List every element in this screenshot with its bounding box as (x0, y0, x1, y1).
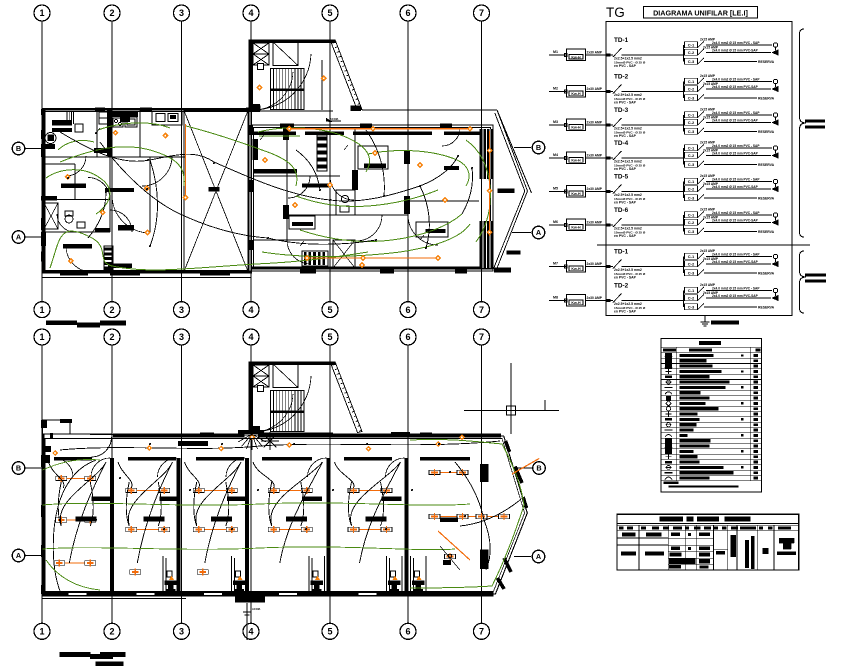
legend row line 6 (661, 384, 761, 386)
breaker C-3 row (685, 161, 698, 167)
tb small square (763, 548, 769, 554)
column bar upper (480, 464, 488, 482)
wall pier (360, 592, 384, 596)
legend row line 20 (661, 458, 761, 460)
outlet diamond (487, 148, 493, 154)
outlet diamond (417, 162, 423, 168)
elevator door b (258, 386, 264, 392)
meter Kw-H 6 (567, 219, 586, 231)
ground symbol under panel (704, 316, 706, 323)
wire fan at stair exit (252, 434, 266, 442)
outlet symbol end C-2 (772, 220, 778, 225)
legend row line 9 (661, 400, 761, 402)
svg-text:C-1: C-1 (688, 213, 695, 218)
svg-text:5: 5 (327, 305, 332, 315)
C-2 branch line (706, 263, 771, 265)
tb hdr blob (722, 526, 727, 529)
room 3 drop wires (194, 482, 197, 526)
svg-text:ACOM.: ACOM. (330, 117, 339, 121)
legend row 1 symbol+text (680, 354, 714, 357)
tick bar at point (498, 189, 515, 194)
wire junction dots (95, 132, 97, 134)
green branch top (259, 135, 300, 137)
svg-text:C-1: C-1 (688, 113, 695, 118)
svg-text:en PVC - SAP: en PVC - SAP (614, 234, 637, 238)
tb tall blob b (745, 540, 749, 568)
switch ticks (96, 128, 100, 133)
range (113, 118, 123, 127)
room 5 desk bar a (382, 497, 402, 502)
svg-text:C-1: C-1 (688, 43, 695, 48)
room 4 desk bar a (302, 497, 322, 502)
svg-text:1: 1 (39, 627, 44, 637)
wall pier (150, 592, 174, 596)
fluorescent lamp (159, 488, 170, 492)
outlet diamond (249, 434, 255, 440)
outlet diamond (100, 209, 106, 215)
entry meter blob (43, 446, 51, 452)
wall pier (300, 433, 314, 437)
wire green 7 (296, 190, 438, 207)
room 1 lamp row 1 wire (61, 478, 90, 480)
corner pier b (249, 426, 261, 434)
corridor fan symbol (270, 440, 279, 442)
svg-text:TD-5: TD-5 (614, 174, 629, 181)
legend row line 23 (661, 474, 761, 476)
C-1 branch line (706, 256, 772, 258)
fluorescent lamp (348, 488, 359, 492)
svg-text:C-2: C-2 (688, 262, 695, 267)
bar bottom (108, 264, 132, 269)
sidewalk line below bottom wall (43, 598, 187, 600)
outlet diamond (467, 126, 473, 132)
feeder line M1 (549, 54, 566, 56)
wire green 4 (186, 126, 297, 186)
svg-text:en PVC - SAP: en PVC - SAP (614, 101, 637, 105)
stair exit bar (238, 430, 264, 434)
hdr blob 3 (756, 348, 761, 351)
title box (644, 7, 758, 19)
legend note row (664, 482, 679, 485)
main breaker slash TD-5 (613, 185, 622, 194)
legend row line 12 (661, 416, 761, 418)
toilet (65, 215, 73, 223)
svg-text:1: 1 (39, 8, 44, 18)
wire black 2 (100, 142, 268, 238)
outlet diamond (256, 84, 262, 90)
room 1 drop wires (58, 482, 61, 526)
stair swing arc (253, 54, 311, 110)
svg-text:M3: M3 (553, 120, 558, 124)
outlet diamond (459, 434, 465, 440)
main breaker slash TD-2 (613, 85, 622, 94)
svg-text:C-2: C-2 (688, 50, 695, 55)
outlet diamond (162, 132, 168, 138)
legend row 15 symbol+text (680, 428, 694, 431)
tb blob (645, 552, 664, 556)
svg-text:1: 1 (39, 332, 44, 342)
fluorescent lamp (226, 527, 237, 531)
fluorescent lamp (381, 527, 392, 531)
legend row line 14 (661, 426, 761, 428)
outlet symbol end C-2 (772, 261, 778, 266)
svg-text:2x4.0 mm2 Ø 15 mm PVC - SAP: 2x4.0 mm2 Ø 15 mm PVC - SAP (712, 178, 760, 182)
main breaker slash TD-6 (613, 218, 622, 227)
svg-text:M2: M2 (553, 87, 558, 91)
grid bubble 3 (174, 5, 190, 21)
svg-text:2x4.0 mm2 Ø 15 mm PVC-SAP: 2x4.0 mm2 Ø 15 mm PVC-SAP (712, 219, 759, 223)
svg-text:M1: M1 (553, 50, 558, 54)
fluorescent lamp (457, 470, 468, 474)
leader A left (top) (25, 236, 42, 238)
corridor wall right part (408, 200, 479, 202)
basin (340, 206, 349, 212)
fluorescent lamp (268, 488, 279, 492)
fluorescent lamp (193, 527, 204, 531)
svg-text:C-2: C-2 (688, 220, 695, 225)
room 5 lamp row 2 wire (354, 529, 387, 531)
svg-text:TD-1: TD-1 (614, 37, 629, 44)
tb blob (622, 533, 636, 537)
fluorescent lamp (54, 561, 65, 565)
wall pier (60, 272, 88, 276)
room 2 lamp row 2 wire (131, 529, 164, 531)
bed bar (426, 229, 446, 233)
legend row 8 symbol+text (680, 391, 701, 394)
door arc (308, 458, 327, 477)
C-3 reserve line (704, 164, 757, 166)
entry jamb (50, 433, 53, 439)
grid bubble A (12, 231, 25, 244)
elevator shaft 2 (253, 54, 269, 65)
svg-text:C-1: C-1 (688, 288, 695, 293)
tb col divider (667, 525, 669, 570)
tb hdr blob (685, 526, 689, 529)
wall pier (420, 433, 432, 437)
svg-text:RESERVA: RESERVA (758, 305, 775, 309)
grid bubble 2 (104, 623, 120, 639)
wire green 3 (60, 147, 184, 186)
black bar below closet row (254, 169, 297, 173)
svg-text:C-3: C-3 (688, 229, 695, 234)
svg-text:5: 5 (327, 627, 332, 637)
outlet symbol end C-2 (772, 295, 778, 300)
tb col divider (713, 525, 715, 570)
outlet diamond (487, 229, 493, 235)
C-3 reserve line (704, 197, 757, 199)
svg-text:2x4.0 mm2 Ø 15 mm PVC - SAP: 2x4.0 mm2 Ø 15 mm PVC - SAP (712, 111, 760, 115)
outlet diamond (144, 185, 150, 191)
svg-text:TD-3: TD-3 (614, 107, 629, 114)
misc wires right part (455, 462, 484, 520)
bottom wall band right apt (251, 266, 493, 269)
room front wall (344, 457, 392, 461)
breaker C-3 row (685, 58, 698, 64)
tb hdr blob (759, 526, 763, 529)
main breaker slash TD-3 (613, 118, 622, 127)
wire black 8 (420, 186, 429, 248)
svg-text:TD-6: TD-6 (614, 207, 629, 214)
grid bubble 1 (34, 5, 50, 21)
leader B left (bottom) (25, 467, 42, 469)
separator line between groups (597, 244, 810, 246)
svg-text:Kw-H: Kw-H (571, 55, 581, 59)
grid bubble 5 (322, 623, 338, 639)
outlet diamond (366, 446, 372, 452)
BOTTOM PLAN outer shell (43, 434, 528, 594)
svg-text:RESERVA: RESERVA (758, 96, 775, 100)
C-2 branch line (706, 188, 771, 190)
bed outline 1 (358, 146, 388, 169)
room 3 desk bar a (227, 497, 247, 502)
breaker C-2 row (685, 295, 698, 301)
room partition 4 (326, 458, 330, 594)
room 4 drop wires (269, 482, 272, 526)
grid bubble 2 (104, 302, 120, 318)
grid line 7 (top plan) (481, 21, 483, 302)
main breaker slash TD-4 (613, 151, 622, 160)
breaker C-2 row (685, 186, 698, 192)
grid bubble 4 (243, 329, 259, 345)
basin (77, 222, 85, 228)
svg-text:2: 2 (109, 8, 114, 18)
grid line 3 (top plan) (181, 21, 183, 302)
legend row 9 symbol+text (680, 397, 710, 400)
grid bubble B (12, 142, 25, 155)
svg-text:2x30 AMP: 2x30 AMP (587, 154, 603, 158)
svg-text:2x4.0 mm2 Ø 15 mm PVC - SAP: 2x4.0 mm2 Ø 15 mm PVC - SAP (712, 144, 760, 148)
room 4 lamp row 2 wire (274, 529, 307, 531)
fluorescent lamp (56, 476, 67, 480)
legend row 11 symbol+text (680, 407, 719, 410)
closet bottom (104, 246, 113, 272)
acom arrow (top) (326, 118, 332, 122)
legend row 20 symbol+text (680, 455, 698, 458)
lamp symbol end C-1 (773, 288, 777, 292)
corridor black bar (178, 441, 208, 446)
svg-text:2x4.0 mm2 Ø 15 mm PVC - SAP: 2x4.0 mm2 Ø 15 mm PVC - SAP (712, 211, 760, 215)
grid bubble 5 (322, 329, 338, 345)
branch group TD-1 (683, 257, 685, 274)
branch group TD-3 (683, 115, 685, 132)
legend row line 15 (661, 432, 761, 434)
grid line 2 (top plan) (111, 21, 113, 302)
pier (41, 232, 46, 246)
junction blob at panel entry (606, 223, 610, 226)
svg-text:Kw-H: Kw-H (571, 125, 581, 129)
lamp symbol end C-1 (773, 79, 777, 83)
breaker C-1 row (685, 112, 698, 118)
C-2 branch line (706, 297, 771, 299)
breaker C-3 row (685, 270, 698, 276)
grid bubble 2 (104, 5, 120, 21)
svg-text:en PVC - SAP: en PVC - SAP (614, 201, 637, 205)
room front wall (128, 457, 176, 461)
C-3 reserve line (704, 272, 757, 274)
legend col divider 2 (749, 347, 751, 480)
svg-text:B: B (16, 464, 21, 473)
corridor top wall thick right (258, 434, 501, 438)
outlet diamond (112, 130, 118, 136)
svg-text:3: 3 (179, 305, 184, 315)
grid bubble 7 (474, 302, 490, 318)
legend row line 8 (661, 394, 761, 396)
pier B row left (41, 144, 55, 149)
bottom wall thick (43, 592, 494, 597)
svg-text:2x30 AMP: 2x30 AMP (587, 221, 603, 225)
wall pier (41, 196, 57, 201)
grid line 1 (bottom plan) (41, 345, 43, 625)
wc stall (309, 556, 325, 592)
wall pier (360, 124, 372, 128)
grid bubble 7 (474, 623, 490, 639)
room 2 desk bar a (159, 497, 179, 502)
svg-text:5: 5 (327, 8, 332, 18)
tb hdr blob (704, 526, 711, 529)
legend row 16 symbol+text (680, 434, 688, 437)
lamp symbol end C-1 (773, 254, 777, 258)
C-2 branch line (706, 88, 771, 90)
svg-text:C-1: C-1 (688, 179, 695, 184)
grid bubble 1 (34, 623, 50, 639)
bracket group 2 (800, 251, 807, 313)
wall pier (249, 240, 253, 250)
branch group TD-2 (683, 82, 685, 99)
fluorescent lamp (85, 518, 96, 522)
svg-text:4: 4 (248, 8, 253, 18)
svg-text:TD-1: TD-1 (614, 249, 629, 256)
wc (341, 195, 348, 202)
breaker C-1 row (685, 178, 698, 184)
tb blob (671, 533, 680, 537)
fluorescent lamp (429, 514, 440, 518)
junction blob at panel entry (606, 190, 610, 193)
closet shelves right apt (317, 135, 327, 171)
stair left wall (249, 362, 254, 434)
C-3 reserve line (704, 61, 757, 63)
outlet diamond (321, 75, 327, 81)
envelope line above right apartment (362, 109, 497, 111)
legend row 18 symbol+text (680, 444, 710, 447)
meter Kw-H 8 (567, 295, 586, 307)
svg-text:6: 6 (405, 8, 410, 18)
balcony line below (42, 277, 251, 279)
elevator door (258, 64, 264, 70)
legend row 10 symbol+text (680, 402, 706, 405)
grid line 2 (bottom plan) (111, 345, 113, 625)
grid line 4 (bottom plan) (250, 345, 252, 625)
tb hdr blob (652, 526, 659, 529)
wall pier (41, 545, 46, 557)
breaker C-3 row (685, 95, 698, 101)
room 5 drop wires (349, 482, 352, 526)
feeder line M3 (549, 124, 566, 126)
grid bubble A (12, 549, 25, 562)
outlet diamond (292, 202, 298, 208)
counter top kitchen (112, 112, 138, 117)
wall pier (41, 252, 46, 262)
wall pier (41, 585, 46, 594)
C-3 reserve line (704, 306, 757, 308)
svg-text:TD-2: TD-2 (614, 74, 629, 81)
leader B right (top) (514, 147, 531, 149)
svg-text:TD-2: TD-2 (614, 283, 629, 290)
C-1 branch line (706, 147, 772, 149)
shaft tie bar (209, 187, 220, 191)
junction blob at panel entry (606, 123, 610, 126)
svg-text:M6: M6 (553, 220, 558, 224)
wire black 5 (268, 238, 376, 244)
wall pier (440, 124, 452, 128)
lamp symbol end C-1 (773, 43, 777, 47)
grid bubble 6 (400, 329, 416, 345)
outlet symbol end C-2 (772, 120, 778, 125)
corner chunk at envelope bottom (494, 268, 511, 273)
unifilar outer box (606, 22, 792, 316)
door arc (91, 458, 110, 477)
wall pier (80, 592, 104, 596)
outlet symbol end C-2 (772, 50, 778, 55)
svg-text:4: 4 (248, 627, 253, 637)
fluorescent lamp (85, 561, 96, 565)
svg-text:TG: TG (606, 5, 625, 20)
grid line 7 (bottom plan) (481, 345, 483, 625)
wire green 10 (466, 140, 490, 242)
stair top wall (bottom plan) (249, 362, 336, 366)
wire green 12 (58, 140, 94, 150)
room 3 lamp single (197, 570, 208, 574)
stair block corner pier (249, 104, 261, 112)
legend row line 2 (661, 362, 761, 364)
meter Kw-H 3 (567, 119, 586, 131)
left wall thick (42, 434, 45, 594)
bed bar 2 (105, 188, 134, 192)
tb top blob3 (697, 517, 719, 522)
stove block (120, 113, 130, 122)
tb blob (621, 552, 636, 556)
outlet diamond (442, 197, 448, 203)
main breaker slash TD-1 (613, 260, 622, 269)
svg-text:B: B (536, 464, 541, 473)
outlet diamond (370, 126, 376, 132)
svg-text:C-3: C-3 (688, 96, 695, 101)
legend row line 4 (661, 373, 761, 375)
feeder line M7 (549, 266, 566, 268)
junction blob at panel entry (606, 299, 610, 302)
svg-text:RESERVA: RESERVA (758, 60, 775, 64)
fluorescent lamp (126, 527, 137, 531)
breaker C-1 row (685, 253, 698, 259)
sofa bar (118, 225, 134, 231)
svg-text:2x4.0 mm2 Ø 15 mm PVC-SAP: 2x4.0 mm2 Ø 15 mm PVC-SAP (712, 152, 759, 156)
pier (60, 419, 72, 423)
outlet diamond (182, 194, 188, 200)
pier at stair SE (351, 106, 362, 112)
svg-text:C-3: C-3 (688, 305, 695, 310)
svg-text:C-1: C-1 (688, 146, 695, 151)
bracket group 1 (800, 29, 807, 237)
orange riser (185, 124, 187, 196)
grid bubble 1 (34, 302, 50, 318)
branch group TD-2 (683, 291, 685, 308)
wire green 6 (368, 151, 469, 186)
tb hdr blob (627, 526, 633, 529)
wall pier (249, 125, 253, 135)
wall pier (246, 108, 252, 112)
svg-text:A: A (16, 551, 22, 560)
entry door arc (92, 437, 112, 457)
lamp symbol end C-1 (773, 113, 777, 117)
